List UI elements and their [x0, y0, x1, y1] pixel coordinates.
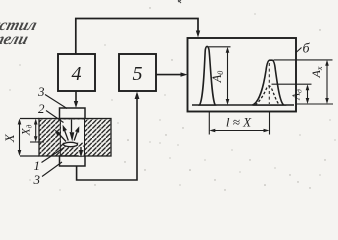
box 5: [119, 54, 156, 91]
handwriting line 2: [0, 29, 31, 48]
svg-text:1: 1: [34, 158, 41, 173]
scan speckles: [9, 7, 335, 190]
dimension Xd: [35, 121, 37, 140]
trace baseline: [192, 104, 294, 106]
wire: box5 right to screen: [156, 74, 183, 76]
leader 1: [42, 148, 65, 163]
extension line bottom: [20, 155, 39, 157]
label б with tick: [296, 48, 302, 54]
wire: top from box4 to screen: [76, 19, 198, 55]
wire: box4 bottom to top transducer: [75, 91, 77, 103]
svg-text:3: 3: [37, 84, 45, 99]
Ad dimension arrow: [307, 87, 309, 102]
oscilloscope screen: [188, 38, 297, 112]
dimension X: [19, 121, 21, 154]
tiny cut-off glyph top: [178, 0, 181, 3]
extension line top: [20, 118, 39, 120]
l=X extension right: [269, 112, 271, 135]
transmitted weakened ray: [79, 147, 84, 156]
leader 3 top: [45, 95, 67, 109]
A0 extension line: [209, 46, 231, 48]
scattered ray up-left steep: [65, 131, 69, 141]
arrowhead into screen top: [196, 31, 200, 38]
svg-text:б: б: [303, 42, 311, 57]
beam column left edge: [59, 119, 61, 157]
beam column right edge: [84, 119, 86, 157]
svg-text:4: 4: [72, 63, 82, 85]
pulse axis dash-dot: [268, 63, 270, 104]
l=X extension left: [208, 112, 210, 135]
right pulse solid (no-defect echo): [253, 60, 284, 105]
bottom extension line: [296, 103, 333, 105]
box 4: [58, 54, 95, 91]
leader 2: [46, 111, 64, 123]
top transducer (emitter): [60, 108, 86, 119]
A0 dimension arrow: [227, 49, 229, 102]
l=X dimension line: [212, 130, 268, 132]
svg-text:l ≈ X: l ≈ X: [226, 115, 252, 130]
incident beam arrow: [71, 120, 73, 133]
scattered ray up-left long: [59, 134, 67, 142]
Ax dimension arrow: [326, 62, 328, 101]
bottom transducer (receiver): [60, 156, 86, 166]
wire: bottom transducer to box5: [77, 97, 137, 180]
beam column white zone: [61, 120, 84, 143]
specimen (hatched test piece): [39, 119, 111, 157]
left pulse (probe pulse): [200, 46, 216, 105]
defect ellipse (flaw 1): [64, 142, 78, 146]
Ax extension line: [274, 59, 333, 61]
svg-text:5: 5: [133, 63, 143, 85]
svg-text:тели: тели: [0, 29, 31, 48]
scattered ray up-right: [74, 132, 77, 141]
extension line defect level: [30, 141, 44, 143]
right pulse dashed (weakened, Ad): [255, 86, 279, 105]
svg-text:3: 3: [33, 172, 41, 187]
svg-text:2: 2: [38, 101, 45, 116]
leader 3 bottom: [42, 162, 62, 177]
handwriting line 1: [0, 15, 39, 34]
Ad extension line: [272, 83, 312, 85]
svg-text:X: X: [2, 133, 17, 143]
